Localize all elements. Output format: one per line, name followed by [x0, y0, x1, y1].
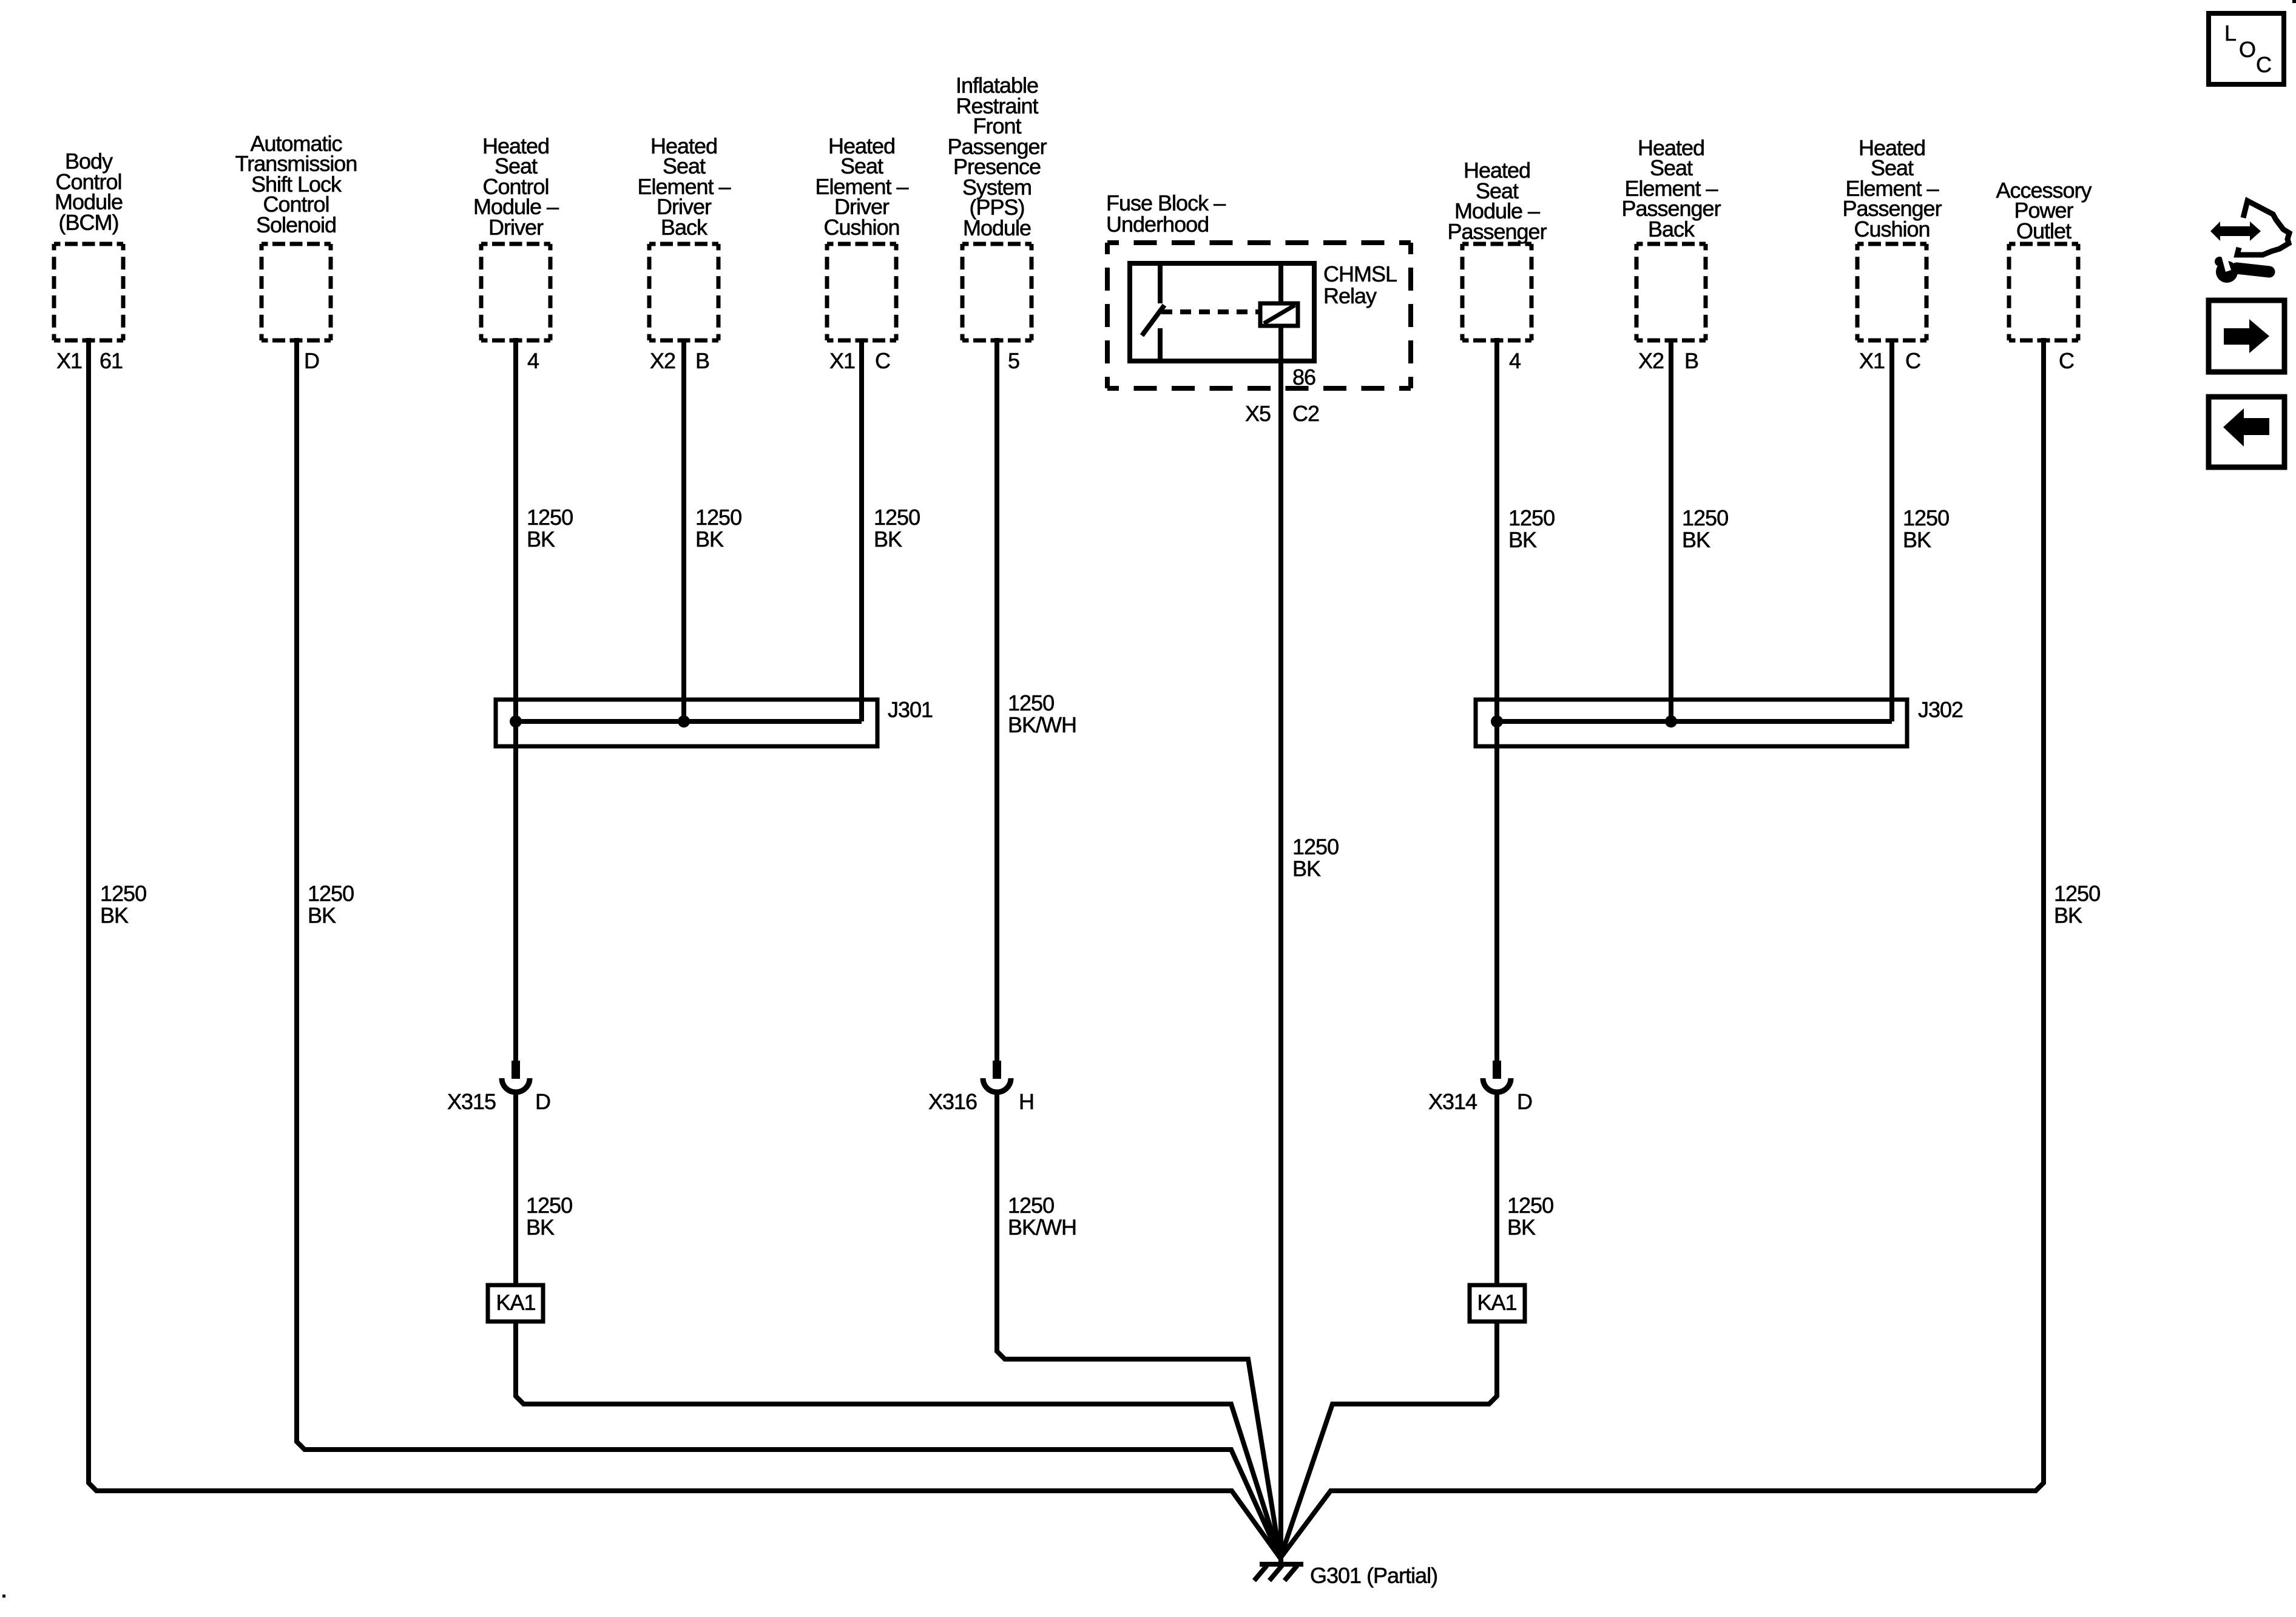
- J302 junction dot left: [1491, 715, 1503, 727]
- label Heated Seat Element - Passenger Back: [1621, 138, 1720, 240]
- fuse block underhood dashed outline: [1107, 243, 1411, 388]
- label Accessory Power Outlet: [1996, 180, 2091, 241]
- label Body Control Module (BCM): [55, 151, 123, 232]
- KA1 box driver: [488, 1285, 543, 1322]
- wire passenger cushion element pin C down to J302: [1889, 340, 1894, 721]
- J302 bus bar: [1496, 719, 1892, 724]
- connector X315 terminal pin: [512, 1061, 520, 1079]
- label splice J302: [1918, 699, 1963, 721]
- pin C of driver cushion element: [875, 350, 890, 372]
- page artifact dot top right: [2292, 0, 2296, 3]
- wire fuse block pin 86 / X5 C2 to ground: [1278, 326, 1283, 1563]
- label Heated Seat Element - Driver Cushion: [815, 136, 908, 238]
- dashed box Heated Seat Element - Driver Back: [649, 244, 718, 340]
- relay switch lower contact: [1158, 328, 1163, 361]
- ground G301 hatch 3: [1285, 1565, 1297, 1581]
- dashed box Accessory Power Outlet: [2009, 244, 2078, 340]
- wire KA1 passenger to ground run: [1280, 1322, 1497, 1558]
- label Heated Seat Element - Passenger Cushion: [1842, 138, 1941, 240]
- service icon wrench jaw notch: [2221, 255, 2231, 272]
- relay actuation dashed link: [1161, 309, 1260, 314]
- wire label 1250 BK passenger back: [1682, 507, 1728, 551]
- pin C of accessory power outlet: [2059, 350, 2074, 372]
- dashed box Body Control Module (BCM): [54, 244, 123, 340]
- wire passenger back element pin B down to J302: [1669, 340, 1673, 721]
- pin D at X314: [1517, 1091, 1532, 1113]
- pin X2 of passenger back element: [1638, 350, 1664, 372]
- wire label 1250 BK BCM: [100, 883, 146, 927]
- wire driver back element pin B down to J301: [681, 340, 686, 721]
- wire X314 to KA1 passenger: [1494, 1090, 1499, 1285]
- service icon wrench handle: [2237, 268, 2269, 272]
- wire X315 to KA1 driver: [513, 1090, 518, 1285]
- ground G301 symbol bar: [1260, 1562, 1303, 1567]
- label Inflatable Restraint Front Passenger Presence System (PPS) Module: [947, 75, 1046, 238]
- legend letter O: [2239, 39, 2255, 61]
- pin X1 of passenger cushion element: [1859, 350, 1885, 372]
- pin 61 of BCM: [100, 350, 123, 372]
- label Heated Seat Control Module - Driver: [473, 136, 558, 238]
- forward arrow box: [2209, 300, 2284, 372]
- connector X314 terminal pin: [1493, 1061, 1501, 1079]
- pin 4 of heated seat module passenger: [1509, 350, 1521, 372]
- wire X316 to ground run: [997, 1090, 1280, 1558]
- splice pack J301 outline: [496, 700, 877, 746]
- dashed box Heated Seat Element - Driver Cushion: [827, 244, 896, 340]
- wire heated seat module passenger pin 4 down to J302 and X314: [1494, 338, 1499, 1061]
- pin D of solenoid: [304, 350, 319, 372]
- pin X1 of driver cushion element: [829, 350, 855, 372]
- relay switch upper contact: [1158, 263, 1163, 303]
- pin X1 of BCM: [56, 350, 82, 372]
- page artifact dot bottom left: [2, 1595, 5, 1598]
- wire label 1250 BK below X315: [526, 1195, 572, 1238]
- splice pack J302 outline: [1476, 700, 1907, 746]
- service icon hand outline: [2237, 201, 2289, 255]
- connector label X316: [928, 1091, 977, 1113]
- back arrow box: [2209, 397, 2284, 467]
- dashed box Automatic Transmission Shift Lock Control Solenoid: [262, 244, 331, 340]
- pin B of driver back element: [695, 350, 709, 372]
- LOC legend box: [2209, 13, 2284, 84]
- forward arrow glyph: [2224, 319, 2269, 353]
- wire accessory power outlet pin C to ground run: [1280, 338, 2044, 1558]
- wire PPS module pin 5 down to X316: [994, 338, 999, 1061]
- back arrow glyph: [2223, 408, 2269, 447]
- CHMSL relay K box: [1130, 263, 1314, 361]
- wire label 1250 BK passenger cushion: [1903, 507, 1949, 551]
- J301 junction dot left: [510, 715, 522, 727]
- wire label 1250 BK accessory outlet: [2054, 883, 2100, 927]
- connector X5 label at fuse block: [1245, 403, 1271, 425]
- label Heated Seat Module - Passenger: [1447, 160, 1546, 241]
- service icon wrench head: [2216, 261, 2238, 283]
- label Heated Seat Element - Driver Back: [637, 136, 730, 238]
- label Automatic Transmission Shift Lock Control Solenoid: [235, 133, 357, 235]
- pin X2 of driver back element: [650, 350, 675, 372]
- label splice J301: [888, 699, 933, 721]
- pin H at X316: [1019, 1091, 1034, 1113]
- dashed box Heated Seat Element - Passenger Cushion: [1857, 244, 1926, 340]
- label CHMSL Relay: [1323, 263, 1397, 307]
- dashed box Heated Seat Control Module - Driver: [481, 244, 550, 340]
- pin 5 of PPS module: [1008, 350, 1019, 372]
- service icon wrench jaw upper prong: [2215, 257, 2224, 266]
- wire label 1250 BK driver back: [695, 507, 741, 550]
- text KA1 driver: [496, 1292, 535, 1313]
- label Fuse Block - Underhood: [1106, 192, 1225, 235]
- service icon two-way arrow: [2210, 221, 2261, 241]
- connector X316 socket cup: [983, 1078, 1011, 1092]
- wire shift lock solenoid pin D to ground run: [297, 338, 1280, 1558]
- text KA1 passenger: [1477, 1292, 1516, 1313]
- wire KA1 driver to ground run: [516, 1322, 1280, 1558]
- wire label 1250 BK driver module: [527, 507, 573, 550]
- pin C2 at fuse block: [1292, 403, 1319, 425]
- wire BCM pin 61 to ground run: [89, 338, 1280, 1558]
- KA1 box passenger: [1470, 1285, 1525, 1322]
- connector X314 socket cup: [1483, 1078, 1511, 1092]
- wire heated seat control module driver pin 4 down to J301 and X315: [513, 338, 518, 1061]
- legend letter C: [2256, 54, 2271, 76]
- J301 junction dot middle: [678, 715, 690, 727]
- ground G301 hatch 1: [1254, 1565, 1267, 1581]
- connector label X314: [1428, 1091, 1477, 1113]
- wire label 1250 BK driver cushion: [874, 507, 920, 550]
- relay coil diagonal: [1264, 305, 1295, 323]
- wire label 1250 BK fuse block: [1292, 836, 1339, 880]
- wire driver cushion element pin C down to J301: [859, 340, 864, 721]
- J302 junction dot middle: [1665, 715, 1677, 727]
- connector label X315: [447, 1091, 496, 1113]
- pin C of passenger cushion element: [1905, 350, 1920, 372]
- dashed box Heated Seat Module - Passenger: [1462, 244, 1531, 340]
- dashed box Heated Seat Element - Passenger Back: [1636, 244, 1706, 340]
- connector X316 terminal pin: [993, 1061, 1001, 1079]
- wire label 1250 BK solenoid: [308, 883, 354, 927]
- pin 4 of heated seat control module driver: [527, 350, 539, 372]
- wire label 1250 BK passenger module: [1508, 507, 1555, 551]
- ground G301 hatch 2: [1269, 1565, 1282, 1581]
- pin 86 of CHMSL relay: [1292, 366, 1315, 388]
- pin D at X315: [535, 1091, 550, 1113]
- pin B of passenger back element: [1684, 350, 1698, 372]
- wire label 1250 BK/WH PPS upper: [1008, 692, 1076, 736]
- relay switch blade: [1142, 305, 1164, 336]
- legend letter L: [2224, 22, 2236, 44]
- relay pin 86 upper stub: [1278, 263, 1283, 303]
- wire label 1250 BK/WH below X316: [1008, 1195, 1076, 1238]
- wire label 1250 BK below X314: [1507, 1195, 1553, 1238]
- J301 bus bar: [515, 719, 862, 724]
- connector X315 socket cup: [502, 1078, 530, 1092]
- relay coil box: [1260, 303, 1298, 326]
- label ground G301 (Partial): [1310, 1565, 1437, 1587]
- dashed box Inflatable Restraint PPS Module: [962, 244, 1032, 340]
